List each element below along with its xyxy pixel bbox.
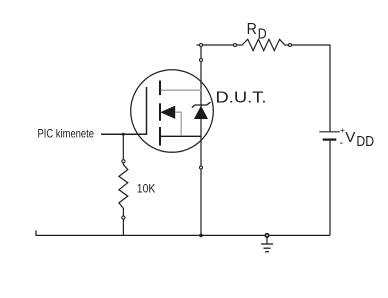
junction dot at bottom rail (199, 234, 203, 238)
node terminal circle source lead (200, 166, 203, 169)
channel dash 3 (159, 127, 161, 146)
svg-text:+: + (340, 125, 345, 135)
svg-text:D: D (258, 26, 267, 43)
svg-text:D.U.T.: D.U.T. (216, 90, 267, 107)
channel dash 2 (159, 103, 161, 120)
body arrow (points left to channel) (160, 106, 175, 119)
svg-text:R: R (247, 21, 257, 38)
ground bar 3 (265, 251, 269, 253)
channel dash 1 (159, 81, 161, 96)
node terminal circle RD left (234, 44, 237, 47)
wire junction down to 10K (122, 134, 124, 159)
ground bar 2 (264, 247, 271, 249)
battery VDD plate short (-) (323, 138, 337, 140)
resistor RD zigzag (237, 39, 288, 50)
node terminal circle top-left (200, 44, 203, 47)
svg-text:10K: 10K (137, 183, 156, 195)
svg-text:-: - (340, 137, 344, 149)
resistor 10K zigzag (119, 163, 128, 215)
svg-text:PIC kimenete: PIC kimenete (38, 126, 95, 140)
wire top stub left of terminal (197, 44, 200, 46)
body connection gray elbow (175, 112, 181, 136)
junction dot gate/divider (122, 133, 125, 136)
battery VDD plate long (+) (319, 131, 339, 133)
svg-text:DD: DD (356, 134, 374, 150)
wire RD to right corner and down to battery (292, 45, 330, 131)
node terminal circle 10K bottom (122, 216, 125, 219)
node terminal circle RD right (289, 44, 292, 47)
wire battery down to bottom (329, 141, 331, 236)
svg-text:V: V (345, 129, 356, 146)
ground lead (266, 237, 268, 244)
body diode triangle (194, 106, 208, 119)
wire gate lead and gate bar (101, 87, 147, 134)
node terminal circle drain (200, 59, 203, 62)
node terminal circle 10K top (122, 160, 125, 163)
transistor D.U.T. envelope circle (131, 70, 214, 153)
wire drain vertical: top node to drain terminal (200, 47, 202, 58)
wire top horizontal to RD (203, 44, 233, 46)
body diode cathode bar with zener bends (192, 102, 211, 107)
drain internal lead gray (161, 89, 201, 91)
ground bar 1 (261, 243, 273, 245)
wire 10K to bottom rail (122, 220, 124, 236)
ground junction ring (265, 234, 268, 237)
wire bottom rail (36, 230, 330, 235)
source internal lead (159, 135, 201, 137)
wire drain-source vertical through DUT to bottom rail (200, 62, 202, 236)
